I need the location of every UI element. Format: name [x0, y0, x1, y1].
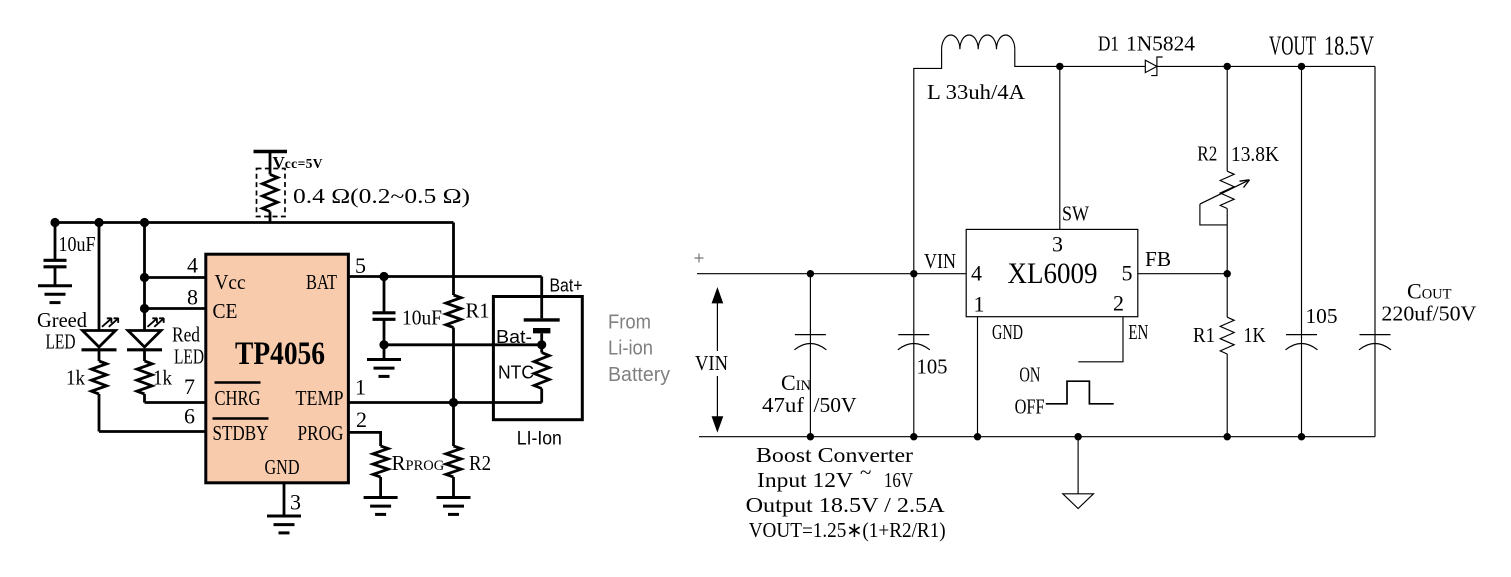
- svg-text:From: From: [608, 312, 651, 334]
- svg-text:Output 18.5V / 2.5A: Output 18.5V / 2.5A: [746, 493, 946, 517]
- svg-text:TEMP: TEMP: [296, 386, 344, 410]
- wire: TEMP pin 1 to NTC: [348, 401, 541, 404]
- ground under R2 left: [437, 498, 471, 515]
- wire: Vcc top rail: [55, 221, 454, 224]
- svg-text:Red: Red: [172, 323, 200, 347]
- svg-text:Vcc=5V: Vcc=5V: [273, 153, 323, 172]
- svg-text:Bat-: Bat-: [496, 327, 532, 347]
- wire: bottom rail: [699, 436, 1375, 438]
- chip U2 XL6009: [966, 229, 1138, 316]
- diode D1 1N5824: [1145, 60, 1157, 72]
- svg-text:EN: EN: [1128, 320, 1148, 344]
- svg-text:FB: FB: [1145, 247, 1171, 271]
- ground triangle: [1063, 494, 1094, 509]
- svg-text:SW: SW: [1062, 202, 1089, 226]
- svg-text:1N5824: 1N5824: [1126, 32, 1196, 56]
- capacitor 105 #2: [1286, 335, 1318, 350]
- svg-text:OFF: OFF: [1015, 395, 1045, 419]
- inductor L 33uh/4A: [942, 35, 1015, 49]
- ground under BAT 10uF: [367, 360, 401, 377]
- wire to pin 7 CHRG: [145, 401, 207, 404]
- thermistor NTC: [540, 345, 543, 353]
- wire: Vcc stem into 0.4ohm resistor: [269, 152, 272, 175]
- label +: [695, 254, 704, 263]
- svg-text:Vcc: Vcc: [215, 270, 246, 294]
- svg-text:STDBY: STDBY: [213, 421, 269, 445]
- node: right circuit junctions: [807, 270, 814, 277]
- svg-text:TP4056: TP4056: [235, 336, 325, 372]
- svg-text:4: 4: [971, 261, 982, 286]
- svg-text:Boost Converter: Boost Converter: [756, 443, 913, 467]
- capacitor CIN 47uf/50V: [794, 335, 826, 350]
- VIN range arrow: [712, 289, 722, 431]
- wire: 105 #1 vertical + inductor left lead: [914, 49, 942, 437]
- svg-text:1: 1: [974, 292, 985, 317]
- svg-text:Bat+: Bat+: [550, 276, 583, 296]
- wire: SW pin 3: [1059, 66, 1061, 229]
- wire: BAT pin 5 to battery: [348, 275, 541, 278]
- svg-text:1: 1: [355, 375, 366, 400]
- resistor R1: [446, 295, 461, 328]
- resistor 1k (green): [91, 361, 106, 394]
- battery cell: [540, 277, 543, 319]
- svg-text:6: 6: [184, 404, 195, 429]
- svg-text:10uF: 10uF: [402, 306, 442, 330]
- svg-text:105: 105: [917, 355, 948, 379]
- node: rail junctions: [50, 218, 59, 227]
- svg-text:13.8K: 13.8K: [1231, 142, 1279, 166]
- svg-text:LED: LED: [174, 345, 204, 369]
- svg-text:L 33uh/4A: L 33uh/4A: [927, 80, 1026, 104]
- wire: PROG pin 2: [348, 432, 380, 446]
- wire: input top rail: [697, 273, 966, 275]
- svg-text:5: 5: [355, 253, 366, 278]
- wire: right vertical from rail to R1: [452, 223, 455, 296]
- svg-text:Li-ion: Li-ion: [608, 338, 653, 360]
- node: TEMP junction: [449, 398, 458, 407]
- svg-text:105: 105: [1306, 304, 1338, 328]
- wire to pin 4 Vcc: [145, 276, 207, 279]
- svg-text:18.5V: 18.5V: [1324, 31, 1374, 61]
- svg-text:Battery: Battery: [608, 364, 670, 386]
- svg-text:Greed: Greed: [37, 308, 87, 332]
- svg-text:1k: 1k: [153, 366, 172, 390]
- svg-text:5: 5: [1122, 261, 1133, 286]
- svg-text:Input 12V: Input 12V: [757, 468, 853, 492]
- wire: CIN vertical: [809, 274, 811, 437]
- svg-text:10uF: 10uF: [59, 232, 96, 256]
- capacitor 10uF left plates: [44, 259, 67, 262]
- svg-text:PROG: PROG: [298, 421, 344, 445]
- wire: red LED branch: [127, 223, 206, 403]
- battery box LI-Ion: [493, 297, 582, 420]
- wire: 105 #2 vertical: [1301, 66, 1303, 436]
- svg-text:GND: GND: [265, 455, 300, 479]
- wire: XL6009 GND pin 1: [977, 317, 979, 437]
- svg-text:8: 8: [187, 285, 198, 310]
- wire: R2/R1 vertical top: [1226, 66, 1228, 171]
- resistor R1 1K: [1226, 274, 1228, 318]
- svg-text:R2: R2: [1197, 142, 1217, 166]
- svg-text:R1: R1: [1193, 323, 1215, 347]
- svg-text:XL6009: XL6009: [1008, 257, 1098, 290]
- svg-text:7: 7: [184, 374, 195, 399]
- wire: left 10uF cap branch: [54, 223, 57, 260]
- capacitor COUT 220uf/50V: [1359, 335, 1391, 350]
- wire to pin 8 CE: [145, 307, 207, 310]
- label From Li-ion Battery: [608, 312, 670, 387]
- wire: green LED branch: [82, 223, 207, 432]
- svg-text:~: ~: [860, 460, 871, 484]
- wire: EN pin 2: [1078, 317, 1123, 362]
- resistor RPROG: [373, 446, 388, 477]
- ground under pin 3: [267, 516, 301, 533]
- resistor R2 (left): [446, 446, 461, 477]
- svg-text:16V: 16V: [884, 468, 913, 492]
- svg-text:LED: LED: [46, 330, 76, 354]
- resistor 1k (red): [137, 361, 152, 394]
- dashed box around 0.4 ohm resistor: [257, 169, 286, 217]
- wire: resistor to rail: [269, 212, 272, 223]
- wire: VOUT rail: [1157, 65, 1375, 67]
- svg-text:CHRG: CHRG: [215, 386, 261, 410]
- wire: Bat- line from cap to NTC: [384, 343, 542, 346]
- ground under left 10uF: [38, 286, 72, 303]
- svg-text:3: 3: [290, 490, 301, 515]
- wire: ground stem: [1077, 437, 1079, 494]
- svg-text:2: 2: [356, 407, 367, 432]
- ground under RPROG: [364, 498, 398, 515]
- svg-text:1k: 1k: [66, 366, 85, 390]
- LED D-red triangle: [128, 331, 161, 348]
- svg-text:VIN: VIN: [695, 351, 728, 375]
- wire: inductor right lead to VOUT rail: [1015, 49, 1146, 66]
- svg-text:2: 2: [1113, 291, 1124, 316]
- Vcc supply T-bar: [254, 150, 288, 153]
- wire: right edge vertical (COUT): [1374, 66, 1376, 436]
- op-chip U1 TP4056: [206, 254, 349, 483]
- green LED arrows: [102, 318, 119, 327]
- svg-text:3: 3: [1052, 232, 1063, 257]
- resistor 0.4 ohm: [262, 174, 277, 211]
- svg-text:R1: R1: [466, 299, 490, 323]
- svg-text:VOUT=1.25∗(1+R2/R1): VOUT=1.25∗(1+R2/R1): [749, 518, 946, 542]
- LED D-green triangle: [83, 331, 116, 348]
- wire to pin 6 STDBY: [99, 430, 206, 433]
- svg-text:VIN: VIN: [924, 249, 956, 273]
- svg-text:R2: R2: [469, 451, 491, 475]
- svg-text:CE: CE: [213, 299, 238, 323]
- svg-text:BAT: BAT: [306, 270, 337, 294]
- svg-text:D1: D1: [1098, 32, 1119, 56]
- resistor R2 13.8K: [1220, 171, 1234, 208]
- node: BAT junctions: [379, 272, 388, 281]
- svg-text:ON: ON: [1019, 363, 1040, 387]
- svg-text:220uf/50V: 220uf/50V: [1381, 302, 1476, 326]
- wire: R1 bottom to TEMP row and to R2 top: [452, 328, 455, 447]
- svg-text:GND: GND: [992, 320, 1023, 344]
- svg-text:47uf: 47uf: [762, 393, 804, 417]
- capacitor 10uF at BAT: [383, 277, 386, 312]
- svg-text:1K: 1K: [1244, 323, 1266, 347]
- capacitor 105 #1: [898, 335, 930, 350]
- R2 wiper arrow: [1200, 180, 1250, 204]
- red LED arrows: [148, 318, 165, 327]
- pulse waveform ON/OFF: [1046, 381, 1114, 404]
- svg-text:4: 4: [187, 253, 198, 278]
- svg-text:LI-Ion: LI-Ion: [517, 429, 562, 450]
- svg-text:/50V: /50V: [814, 393, 857, 417]
- svg-text:NTC: NTC: [498, 363, 534, 383]
- wire: GND pin 3: [283, 483, 286, 516]
- svg-text:VOUT: VOUT: [1269, 31, 1316, 61]
- wire: FB pin 5: [1138, 273, 1227, 275]
- R2 wiper tail: [1200, 204, 1227, 225]
- svg-text:0.4 Ω(0.2~0.5 Ω): 0.4 Ω(0.2~0.5 Ω): [293, 184, 470, 208]
